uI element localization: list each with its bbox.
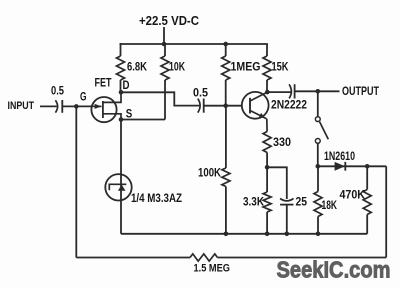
wire: output node down to switch xyxy=(317,91,319,116)
capacitor C1 0.5 input (straight plate) xyxy=(61,100,63,113)
resistor R5 100K xyxy=(222,168,230,187)
wire: 25 cap bottom lead xyxy=(286,205,288,234)
junction: 10K top xyxy=(162,42,167,47)
diode CR2 1N2610 triangle xyxy=(335,162,345,171)
Q2 collector lead xyxy=(250,92,267,101)
svg-text:1MEG: 1MEG xyxy=(231,60,261,74)
wire: 6.8K lead to drain xyxy=(120,80,122,92)
Q2 base bar xyxy=(249,98,251,114)
svg-text:330: 330 xyxy=(273,135,291,149)
wire: cap to base xyxy=(204,105,242,107)
FET channel bar xyxy=(102,101,104,118)
svg-text:D: D xyxy=(123,78,130,92)
zener diode CR1 circle xyxy=(105,174,131,200)
switch S1 bottom contact xyxy=(315,139,320,144)
wire: 10K bottom lead down to source wire xyxy=(164,80,166,120)
svg-text:3.3K: 3.3K xyxy=(243,195,264,209)
wire: 470K bottom lead xyxy=(366,215,368,234)
resistor R7 470K xyxy=(363,190,371,215)
wire: 18K bottom lead xyxy=(317,217,319,234)
capacitor C4 output (curved plate) xyxy=(289,84,291,98)
svg-text:S: S xyxy=(126,107,133,121)
wire: collector to output cap xyxy=(267,91,291,93)
capacitor C5 25 (straight plate) xyxy=(280,204,293,206)
resistor R9 3.3K top lead xyxy=(266,167,268,192)
wire: switch to diode rail xyxy=(317,143,319,166)
wire: source to 10K lead xyxy=(121,119,165,121)
wire: gate node down left side xyxy=(75,106,77,257)
svg-text:15K: 15K xyxy=(272,60,289,74)
svg-text:2N2222: 2N2222 xyxy=(271,98,307,112)
svg-text:0.5: 0.5 xyxy=(51,84,64,98)
junction: 470K top xyxy=(365,164,370,169)
diode CR2 cathode bar xyxy=(344,162,346,171)
wire: junction to 25 cap branch xyxy=(267,167,287,199)
wire: 3.3K bottom lead xyxy=(266,212,268,234)
resistor R6 18K xyxy=(314,192,322,217)
wire: bottom feedback left segment xyxy=(76,257,190,259)
capacitor C4 output (straight plate) xyxy=(294,84,296,98)
switch S1 top contact xyxy=(315,117,320,122)
svg-text:1/4 M3.3AZ: 1/4 M3.3AZ xyxy=(131,191,182,205)
junction: output node xyxy=(316,89,321,94)
resistor R8 330 xyxy=(263,132,271,153)
FET source lead xyxy=(103,114,121,120)
svg-text:18K: 18K xyxy=(322,198,338,212)
svg-text:SeekIC.com: SeekIC.com xyxy=(277,257,391,283)
FET gate lead and arrow xyxy=(92,105,102,107)
wire: 18K top lead xyxy=(317,166,319,191)
wire: 330 to junction xyxy=(266,153,268,168)
junction: collector node xyxy=(265,90,270,95)
wire: bottom feedback right segment xyxy=(218,257,387,259)
capacitor C3 0.5 interstage (straight plate) xyxy=(203,99,205,113)
capacitor C1 0.5 input (curved plate) xyxy=(55,100,57,112)
wire: base node down to 100K xyxy=(225,106,227,168)
svg-text:6.8K: 6.8K xyxy=(127,60,147,74)
resistor R2 10K xyxy=(161,56,169,80)
svg-text:G: G xyxy=(80,90,87,104)
wire: lower rail xyxy=(121,233,367,235)
svg-text:INPUT: INPUT xyxy=(8,100,35,112)
Q2 emitter lead with arrow xyxy=(250,111,267,119)
junction: 3.3K bottom xyxy=(265,232,270,237)
zener cathode bar with hook xyxy=(109,184,126,190)
FET Q1 body circle xyxy=(91,97,116,122)
svg-text:470K: 470K xyxy=(340,188,366,202)
zener anode triangle xyxy=(118,185,126,191)
svg-text:1N2610: 1N2610 xyxy=(324,149,355,163)
wire: 6.8K top lead xyxy=(120,43,122,56)
wire: emitter lead down xyxy=(266,119,268,132)
wire: cap to gate xyxy=(62,105,91,107)
wire: supply lead xyxy=(163,27,165,44)
switch S1 lever xyxy=(320,122,329,140)
resistor R1 6.8K xyxy=(117,56,125,80)
junction: 1MEG top xyxy=(223,42,228,47)
wire: 1MEG bottom lead to base node xyxy=(225,80,227,106)
resistor R9 3.3K xyxy=(263,192,271,212)
svg-text:100K: 100K xyxy=(198,166,221,180)
junction: drain node D xyxy=(119,90,124,95)
svg-text:+22.5 VD-C: +22.5 VD-C xyxy=(139,13,200,28)
wire: right feedback riser xyxy=(385,166,387,257)
resistor R3 1MEG xyxy=(222,56,230,80)
FET drain lead xyxy=(103,92,121,102)
wire: 15K top lead xyxy=(266,44,268,56)
junction: 100K bottom xyxy=(224,232,229,237)
junction: 18K bottom xyxy=(316,232,321,237)
wire: diode rail xyxy=(318,165,386,167)
svg-text:1.5 MEG: 1.5 MEG xyxy=(194,263,231,275)
wire: cap to output xyxy=(295,90,340,92)
svg-text:25: 25 xyxy=(296,195,308,209)
junction: emitter bypass node xyxy=(265,165,270,170)
wire: 15K bottom lead to collector xyxy=(266,80,268,92)
junction: base node xyxy=(223,103,228,108)
junction: source node S xyxy=(119,117,124,122)
wire: source down to zener xyxy=(120,120,122,234)
junction: gate node G xyxy=(74,104,79,109)
svg-text:0.5: 0.5 xyxy=(193,86,208,100)
junction: 25 cap bottom xyxy=(285,232,290,237)
junction: 18K top xyxy=(316,164,321,169)
svg-text:FET: FET xyxy=(95,76,112,90)
capacitor C5 25 (curved plate) xyxy=(280,199,293,201)
wire: 470K top lead xyxy=(366,166,368,189)
resistor R10 1.5 MEG xyxy=(190,254,218,261)
resistor R4 15K xyxy=(263,56,271,80)
svg-text:10K: 10K xyxy=(169,60,185,74)
wire: 1MEG top lead xyxy=(225,44,227,56)
wire: top supply rail xyxy=(120,43,268,45)
capacitor C3 0.5 interstage (curved plate) xyxy=(198,99,200,113)
svg-text:OUTPUT: OUTPUT xyxy=(342,84,379,98)
wire: 100K bottom lead xyxy=(225,187,227,234)
transistor Q2 2N2222 body circle xyxy=(242,92,269,119)
wire: input lead xyxy=(40,105,57,107)
wire: 10K top lead xyxy=(164,44,166,56)
wire: drain to interstage cap xyxy=(121,92,199,105)
